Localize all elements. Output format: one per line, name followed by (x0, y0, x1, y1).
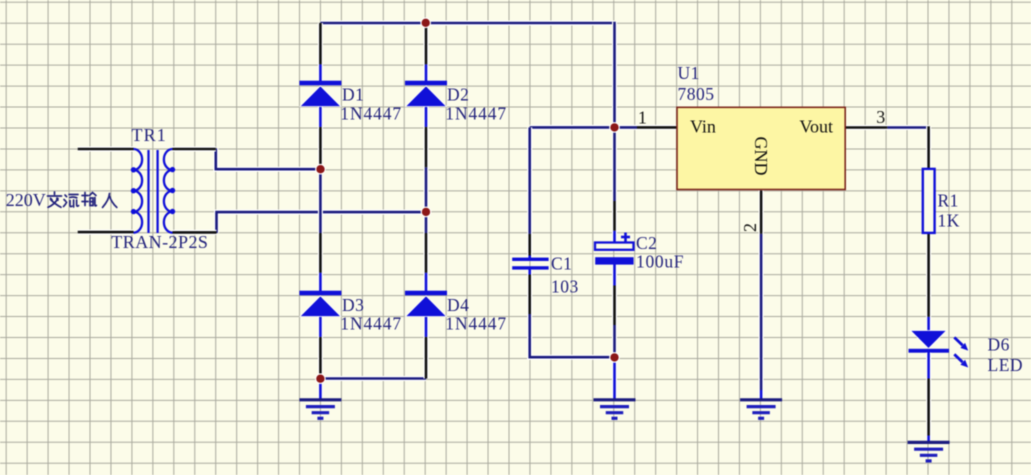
svg-text:100uF: 100uF (636, 252, 684, 272)
svg-text:2: 2 (740, 223, 760, 232)
transformer TR1 secondary top lead (173, 147, 216, 152)
pin C2 top (612, 201, 617, 231)
pin D4 anode (424, 337, 429, 379)
svg-text:C1: C1 (551, 254, 572, 274)
pin D1 anode (318, 127, 323, 167)
svg-text:220V: 220V (6, 190, 46, 210)
pin LED bottom (926, 378, 931, 436)
wire gnd pin 2 down (759, 233, 764, 391)
svg-text:D3: D3 (342, 295, 364, 315)
wire vout to R1 (887, 125, 929, 130)
svg-text:LED: LED (988, 355, 1024, 375)
wire transformer secondary bottom to bridge (217, 212, 427, 233)
pin D3 anode (318, 337, 323, 379)
ground below LED (926, 436, 931, 444)
ground below U1 pin2 (759, 390, 764, 400)
wire C1 vertical top (527, 127, 532, 234)
wire D2-D4 mid segment (424, 167, 429, 234)
diode D2 (424, 64, 429, 83)
pin U1.2 GND (759, 190, 764, 233)
pin C1 bottom (527, 274, 532, 315)
svg-text:GND: GND (751, 137, 771, 176)
wire right drop to node 1 (612, 22, 617, 128)
transformer TR1 secondary winding (164, 149, 173, 233)
svg-text:1N4447: 1N4447 (445, 104, 507, 124)
ground below C1/C2 (612, 358, 617, 401)
pin C1 top (527, 234, 532, 256)
transformer TR1 primary top lead (78, 147, 134, 152)
pin D4 cathode (424, 233, 429, 273)
LED arrow 2 (954, 354, 962, 362)
pin U1.3 Vout (845, 125, 887, 130)
op-amp/regulator U1 7805 box (677, 107, 845, 189)
pin R1 top (926, 126, 931, 169)
wire C1 bottom (530, 313, 615, 357)
wire node 1 down to C2 (612, 127, 617, 201)
wire D1-D3 mid segment (318, 166, 323, 234)
node C1/C2 ground (609, 352, 620, 363)
pin C2 bottom (612, 285, 617, 326)
transformer TR1 core (147, 150, 149, 233)
transformer TR1 primary bottom lead (78, 230, 134, 235)
pin D2 anode (424, 127, 429, 168)
svg-text:1: 1 (638, 108, 647, 128)
svg-text:D2: D2 (447, 85, 469, 105)
svg-text:1K: 1K (938, 211, 960, 231)
diode D3 (318, 273, 323, 293)
svg-text:1N4447: 1N4447 (445, 314, 507, 334)
wire bottom rail D3-D4 (320, 376, 426, 381)
diode D1 (318, 64, 323, 83)
node 1 (Vin) (609, 122, 620, 133)
pin D2 cathode (top) (424, 25, 429, 65)
pin D1 cathode (top) (318, 23, 323, 65)
svg-text:D4: D4 (447, 295, 469, 315)
LED arrow 1 (954, 337, 962, 345)
wire top rail (320, 21, 614, 26)
pin R1 bottom / LED top (926, 233, 931, 317)
svg-text:R1: R1 (938, 191, 959, 211)
resistor R1 (923, 169, 935, 233)
svg-text:Vin: Vin (690, 117, 716, 137)
wire C2 bottom (612, 324, 617, 357)
svg-text:U1: U1 (678, 63, 700, 83)
LED D6 (926, 317, 931, 331)
pin D3 cathode (318, 233, 323, 273)
svg-text:Vout: Vout (799, 117, 833, 137)
ground below bridge (318, 379, 323, 400)
node secondary bottom (421, 207, 432, 218)
svg-text:1N4447: 1N4447 (340, 104, 402, 124)
transformer TR1 secondary bottom lead (173, 230, 217, 235)
capacitor C2 (612, 231, 617, 244)
svg-text:D6: D6 (988, 335, 1010, 355)
node top rail / D2 (420, 18, 431, 29)
wire node1 to C1 top (530, 125, 638, 130)
svg-text:D1: D1 (342, 85, 364, 105)
transformer TR1 primary winding (134, 149, 143, 233)
svg-text:TRAN-2P2S: TRAN-2P2S (111, 232, 208, 252)
svg-text:103: 103 (551, 277, 579, 297)
svg-text:1N4447: 1N4447 (340, 314, 402, 334)
svg-text:C2: C2 (636, 233, 657, 253)
diode D4 (424, 273, 429, 293)
svg-text:3: 3 (876, 107, 885, 127)
wire transformer secondary top to bridge (216, 148, 321, 169)
capacitor C1 (527, 256, 532, 259)
node secondary top (315, 164, 326, 175)
svg-text:7805: 7805 (678, 84, 715, 104)
node bottom rail / ground (315, 373, 326, 384)
pin U1.1 Vin (637, 125, 677, 130)
svg-text:TR1: TR1 (132, 125, 167, 145)
